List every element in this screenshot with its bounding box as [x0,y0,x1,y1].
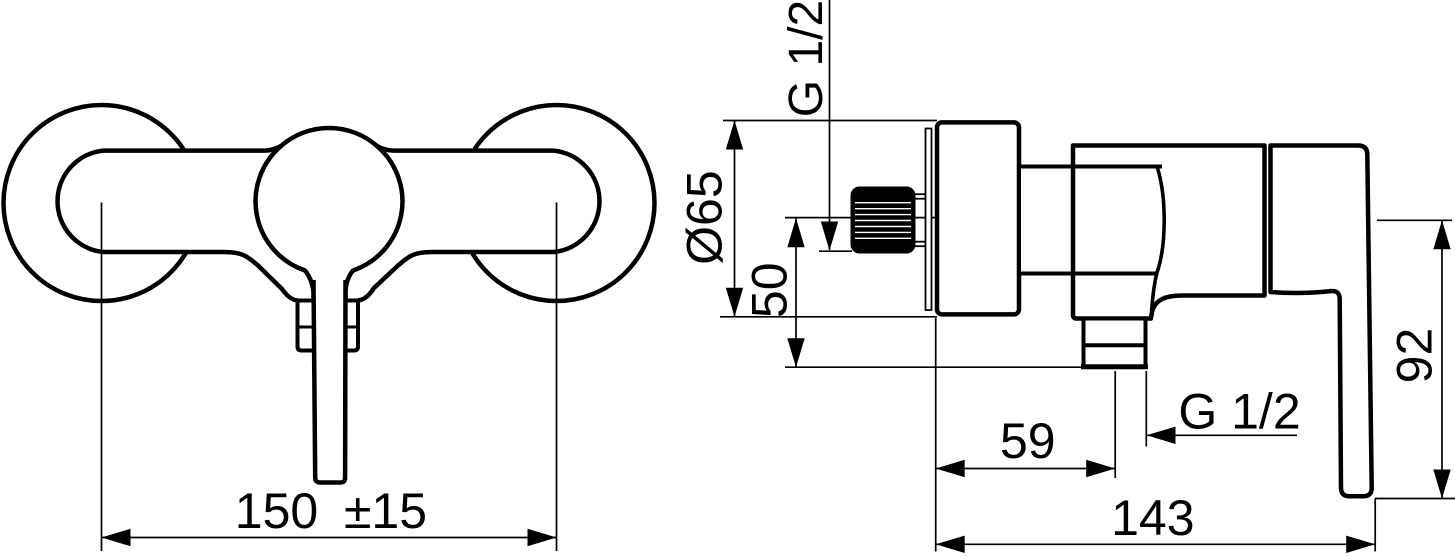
svg-text:±15: ±15 [344,483,427,539]
svg-text:G 1/2: G 1/2 [1178,384,1300,440]
svg-text:150: 150 [235,483,318,539]
svg-text:143: 143 [1111,490,1194,546]
svg-text:59: 59 [1000,413,1056,469]
svg-text:50: 50 [742,262,798,318]
svg-text:G 1/2: G 1/2 [780,0,833,117]
svg-text:Ø65: Ø65 [677,170,733,265]
svg-text:92: 92 [1387,328,1443,384]
